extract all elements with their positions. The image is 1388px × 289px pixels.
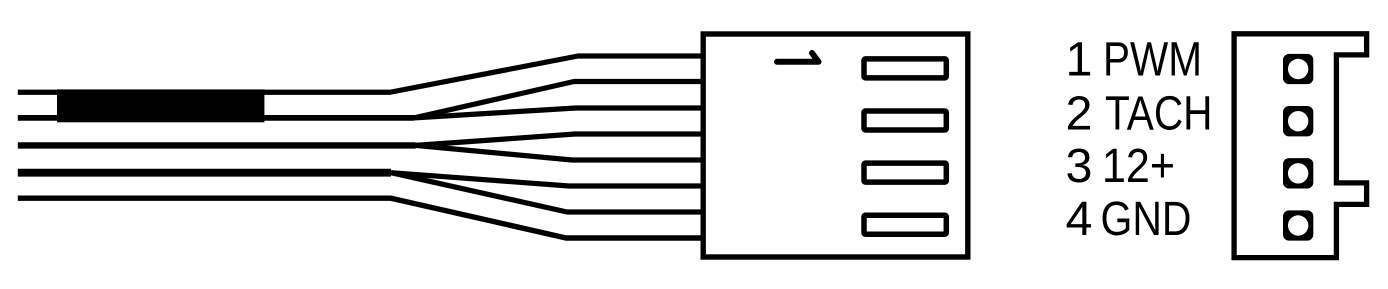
contact slot 3 — [864, 163, 946, 182]
wire W1 lower outline lead (thicker) — [18, 115, 414, 121]
wire branch L3 (gentle rise from W1 lower fork) — [414, 108, 703, 118]
wire branch L4 (rise from W2 fork) — [416, 134, 703, 145]
black band marker on wire W1 — [57, 89, 264, 122]
pin-1 marker (rotated numeral 1) — [777, 53, 819, 62]
svg-text:3: 3 — [1066, 139, 1093, 193]
wire branch L2 (steep rise from W1 lower fork) — [414, 82, 703, 118]
contact slot 4 — [864, 215, 946, 234]
contact slot 1 — [864, 59, 946, 78]
wire branch L6 (gentle drop from W3 fork) — [391, 173, 703, 186]
header pin 4 — [1283, 210, 1313, 240]
svg-text:TACH: TACH — [1105, 86, 1213, 140]
contact slot 2 — [864, 111, 946, 130]
svg-text:PWM: PWM — [1103, 32, 1202, 86]
wire W2 lead — [18, 142, 416, 148]
wire W4 lead and branch L8 (drop to ladder L8) — [18, 198, 703, 238]
wire W3 lead (thickest) — [18, 169, 391, 177]
svg-text:1: 1 — [1066, 32, 1093, 86]
wire W1 upper outline (pin1 wire top edge, lead + rise to ladder L1) — [18, 56, 703, 92]
svg-text:4: 4 — [1066, 192, 1093, 246]
svg-text:2: 2 — [1066, 86, 1093, 140]
header pin 1 (square pin with hole) — [1283, 54, 1313, 84]
header socket outline (motherboard fan header profile) — [1234, 34, 1367, 258]
wire branch L5 (drop from W2 fork) — [416, 145, 703, 160]
connector housing body — [703, 34, 968, 257]
svg-text:12+: 12+ — [1102, 139, 1175, 193]
header pin 3 — [1283, 158, 1313, 188]
svg-text:GND: GND — [1101, 192, 1192, 246]
wire branch L7 (steep drop from W3 fork) — [391, 173, 703, 212]
header pin 2 — [1283, 106, 1313, 136]
